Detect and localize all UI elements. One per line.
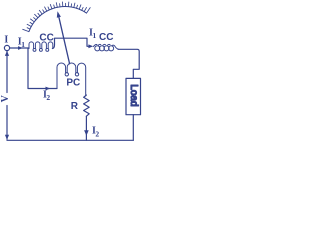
resistor R zigzag bbox=[84, 95, 90, 116]
svg-text:I: I bbox=[4, 34, 8, 45]
svg-text:Load: Load bbox=[128, 84, 139, 106]
wire coil2 to right corner and jog to load bbox=[118, 49, 139, 78]
svg-text:2: 2 bbox=[95, 129, 99, 138]
PC bottom loops bbox=[65, 73, 79, 76]
scale tick marks bbox=[23, 2, 91, 32]
wire terminal to coil1 bbox=[10, 47, 29, 49]
wire junction drop to I2 branch bbox=[28, 48, 57, 88]
wire resistor to rail bbox=[85, 116, 87, 140]
arrowhead I1 left bbox=[18, 46, 23, 50]
CC1 bottom loops bbox=[33, 48, 49, 51]
svg-text:CC: CC bbox=[99, 32, 113, 43]
CC2 top bridges bbox=[93, 44, 118, 49]
svg-text:1: 1 bbox=[21, 40, 25, 49]
elevated wire between coils bbox=[52, 38, 87, 48]
arrowhead I2 left branch bbox=[46, 87, 51, 91]
meter scale arc bbox=[29, 7, 87, 32]
svg-text:CC: CC bbox=[39, 33, 53, 44]
load bottom wire bbox=[132, 115, 134, 141]
svg-text:2: 2 bbox=[46, 93, 50, 102]
current coil CC1 bbox=[29, 42, 53, 49]
bottom rail bbox=[7, 139, 133, 141]
svg-text:R: R bbox=[71, 101, 79, 112]
arrowhead I1 right bbox=[88, 44, 93, 48]
V top arrowhead bbox=[5, 51, 9, 56]
svg-text:1: 1 bbox=[93, 31, 97, 40]
V line upper segment bbox=[6, 51, 8, 93]
svg-text:PC: PC bbox=[66, 77, 80, 88]
load box bbox=[126, 78, 141, 114]
V line lower segment bbox=[6, 106, 8, 140]
arrowhead I2 bottom bbox=[84, 130, 89, 136]
needle arrowhead bbox=[57, 11, 61, 18]
pressure coil PC (entry from I2 branch, 3 turns, exit to R) bbox=[57, 63, 86, 96]
svg-text:V: V bbox=[0, 94, 11, 102]
current coil CC2 turns bbox=[95, 46, 114, 51]
terminal I circle bbox=[4, 45, 9, 50]
needle (pointer) shaft bbox=[59, 17, 70, 64]
V bottom arrowhead bbox=[5, 135, 9, 140]
